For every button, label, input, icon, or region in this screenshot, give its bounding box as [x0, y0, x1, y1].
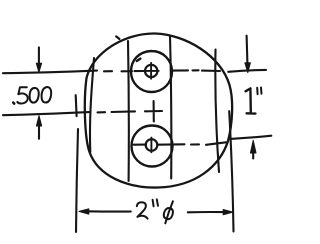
top hole inner circle	[145, 65, 157, 77]
digit 0	[42, 87, 52, 103]
bottom hole center cross	[150, 138, 152, 153]
chord line 2 (left of holes)	[127, 41, 130, 181]
text 2 phi	[137, 199, 173, 223]
middle centerline dashes	[98, 111, 136, 112]
chord line 1 (left vertical)	[90, 58, 94, 152]
text .500	[13, 87, 51, 104]
top centerline dashes	[104, 70, 220, 71]
bottom hole centerline dashes	[134, 142, 227, 145]
top centerline: left dimension line (.500 top)	[3, 71, 97, 74]
left dimension down arrow	[38, 47, 40, 63]
digit 5	[17, 87, 28, 103]
chord line 4 (right vertical)	[215, 50, 219, 173]
bottom dimension line left with arrow	[87, 210, 131, 212]
quote	[153, 199, 158, 206]
right dimension top line	[228, 70, 266, 72]
right dimension bottom line	[231, 136, 272, 139]
bottom dimension left extension line	[75, 95, 78, 116]
right dimension up arrow	[252, 154, 254, 159]
big circle body outline	[85, 33, 232, 187]
middle centerline: left dimension line (.500 bottom)	[3, 112, 89, 115]
top hole outer circle	[131, 51, 172, 92]
center mark cross	[145, 101, 162, 122]
bottom dimension right extension line	[229, 111, 233, 231]
text 1"	[246, 88, 262, 114]
bottom hole inner circle	[146, 139, 158, 151]
bottom dimension line right with arrow	[188, 211, 225, 213]
top hole center cross	[144, 63, 159, 79]
bottom hole outer circle	[132, 126, 173, 167]
right dimension down arrow	[246, 36, 249, 63]
digit 2	[137, 202, 148, 218]
digit 0	[30, 88, 39, 103]
left dimension up arrow	[38, 127, 40, 139]
period	[13, 103, 14, 104]
chord line 3 (right of holes)	[170, 36, 171, 179]
phi	[164, 201, 173, 223]
